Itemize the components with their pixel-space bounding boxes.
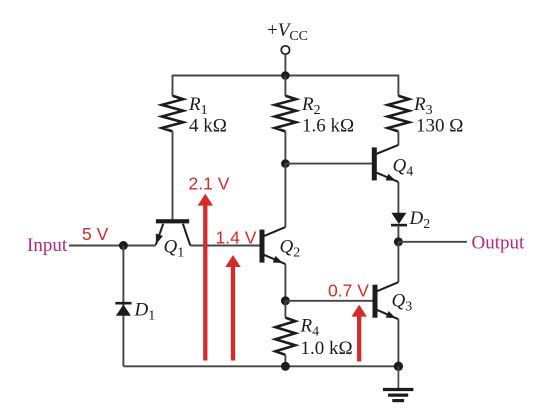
wire rail to R1 xyxy=(172,75,174,96)
power +VCC label xyxy=(267,20,308,44)
value 5 V xyxy=(82,224,109,244)
value 1.0 kOhm xyxy=(301,338,353,359)
node VCC rail junction xyxy=(281,71,290,80)
wire Q1 collector to Q2 base xyxy=(190,245,259,247)
wire input xyxy=(69,245,156,247)
label Q3 xyxy=(392,291,413,315)
VCC terminal xyxy=(281,46,289,54)
wire R4 to bottom rail xyxy=(284,355,286,367)
diode D2 xyxy=(391,213,407,225)
wire bottom rail xyxy=(123,365,398,367)
label Input xyxy=(27,235,68,256)
wire R3 to Q4 collector xyxy=(397,131,399,145)
resistor R2 xyxy=(275,96,296,132)
wire Q2 emitter to Q3 base xyxy=(285,300,372,302)
transistor Q2 xyxy=(260,227,286,264)
label Q2 xyxy=(280,237,301,261)
annotation 1.4 V xyxy=(216,228,257,248)
node input junction xyxy=(119,241,128,250)
label R1 xyxy=(188,94,208,118)
svg-text:2.1 V: 2.1 V xyxy=(189,174,230,194)
arrow 0.7 V xyxy=(352,305,367,362)
label Q1 xyxy=(164,237,185,261)
wire output node to Q3 collector xyxy=(397,242,399,282)
wire D2 to output node xyxy=(397,225,399,242)
transistor Q3 xyxy=(373,282,399,319)
wire R1 to Q1 base xyxy=(172,131,174,219)
node R2 bottom junction xyxy=(281,159,290,168)
label R3 xyxy=(413,94,433,118)
value 1.6 kOhm xyxy=(302,116,354,137)
annotation 2.1 V xyxy=(189,174,230,194)
wire Q3 emitter to ground node xyxy=(397,319,399,366)
arrow 1.4 V xyxy=(225,255,240,361)
resistor R3 xyxy=(388,96,409,132)
wire VCC stem xyxy=(284,54,286,75)
wire rail to R2 xyxy=(284,76,286,96)
annotation 0.7 V xyxy=(328,281,369,301)
node R4 bottom junction xyxy=(281,362,290,371)
svg-text:1.6 kΩ: 1.6 kΩ xyxy=(302,116,354,137)
svg-text:Input: Input xyxy=(27,235,68,256)
resistor R4 xyxy=(275,318,295,355)
svg-text:5 V: 5 V xyxy=(82,224,109,244)
value 4 kOhm xyxy=(189,116,227,137)
node ground junction xyxy=(394,362,403,371)
node Q2 emitter junction xyxy=(281,296,290,305)
label R2 xyxy=(301,94,321,118)
wire rail to R3 xyxy=(397,75,399,96)
svg-text:130 Ω: 130 Ω xyxy=(416,116,463,137)
svg-text:1.0 kΩ: 1.0 kΩ xyxy=(301,338,353,359)
wire top rail xyxy=(173,75,399,77)
label D2 xyxy=(409,208,431,232)
wire Q2 emitter down xyxy=(284,264,286,301)
wire node to R4 xyxy=(284,301,286,318)
arrow 2.1 V xyxy=(198,194,213,361)
label Q4 xyxy=(393,156,414,180)
label R4 xyxy=(300,316,320,340)
wire node to Q2 collector xyxy=(284,164,286,228)
label Output xyxy=(472,233,526,254)
wire output xyxy=(398,241,467,243)
wire Q4 emitter to D2 xyxy=(397,182,399,213)
wire node to Q4 base xyxy=(285,163,371,165)
label D1 xyxy=(134,300,156,324)
svg-text:4 kΩ: 4 kΩ xyxy=(189,116,227,137)
svg-text:1.4 V: 1.4 V xyxy=(216,228,257,248)
resistor R1 xyxy=(162,96,183,132)
svg-text:Output: Output xyxy=(472,233,526,254)
node output junction xyxy=(394,237,403,246)
wire input to D1 and bottom rail xyxy=(122,246,124,367)
diode D1 xyxy=(115,303,131,316)
svg-text:0.7 V: 0.7 V xyxy=(328,281,369,301)
wire R2 to node xyxy=(284,131,286,163)
ground xyxy=(383,366,413,400)
value 130 Ohm xyxy=(416,116,463,137)
transistor Q1 xyxy=(156,219,191,245)
transistor Q4 xyxy=(372,145,399,182)
